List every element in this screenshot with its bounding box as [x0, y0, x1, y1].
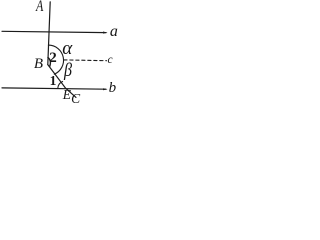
angle 1 arc at E: [58, 82, 63, 88]
line b: [2, 88, 106, 89]
label A: [36, 0, 43, 16]
arrow tip line b: [103, 88, 108, 90]
label B: [34, 56, 43, 73]
dashed ray c: [64, 59, 107, 62]
segment AB (vertical transversal): [48, 2, 50, 65]
label beta: [64, 60, 72, 82]
label 1: [50, 73, 57, 89]
angle 2 large arc at B: [48, 45, 63, 74]
label b: [109, 80, 117, 97]
segment B to E to C: [48, 65, 76, 98]
arrow tip line a: [103, 32, 108, 34]
label E: [63, 87, 71, 103]
angle 2 small arc at B: [48, 57, 51, 66]
label alpha: [62, 38, 72, 60]
geometry figure: parallel lines a,b cut by transversal AB and line BC: [0, 0, 119, 109]
label a: [110, 23, 118, 41]
label 2: [49, 50, 57, 67]
label c: [108, 54, 113, 66]
label C: [71, 91, 80, 107]
line a: [2, 31, 106, 32]
